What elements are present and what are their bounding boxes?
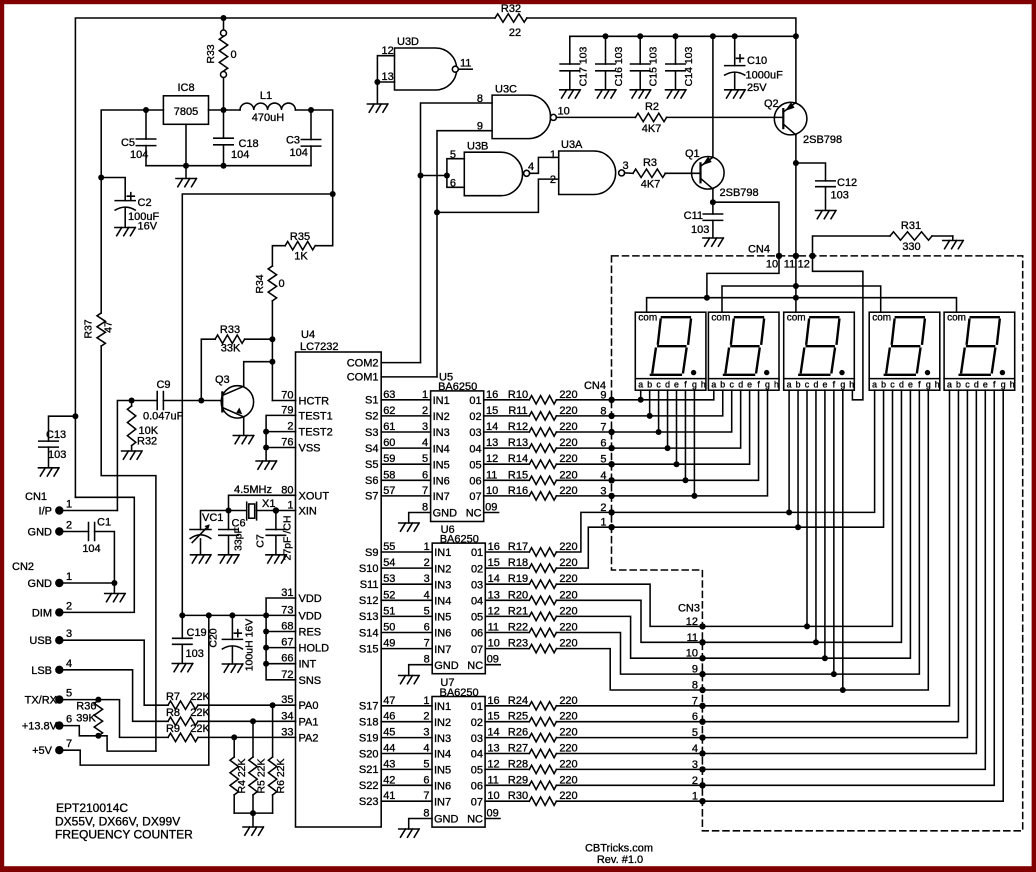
svg-text:S4: S4 [365, 443, 378, 455]
node R34 / R33 33K junction [269, 336, 275, 342]
svg-text:DIM: DIM [32, 607, 52, 619]
svg-text:a: a [872, 380, 877, 390]
svg-text:68: 68 [281, 621, 293, 633]
connector pin 4 LSB [55, 666, 63, 674]
wire segment CN3-2 to DS5 pin f [703, 390, 995, 785]
ground R31 [943, 241, 964, 249]
svg-text:h: h [849, 380, 854, 390]
svg-text:NC: NC [467, 660, 483, 672]
wire R29 to CN3 pin 2 [556, 784, 702, 786]
svg-text:02: 02 [469, 411, 481, 423]
svg-text:470uH: 470uH [252, 112, 284, 124]
svg-text:4: 4 [528, 161, 534, 173]
svg-text:g: g [926, 380, 931, 390]
svg-text:R35: R35 [290, 231, 310, 243]
svg-text:22K: 22K [190, 723, 210, 735]
transistor Q3 2SC-type NPN [221, 386, 253, 418]
U4 pin 2 TEST2 [266, 431, 295, 433]
wire crystal row to VC1 [201, 511, 229, 530]
IC U7 BA6250 [432, 697, 485, 828]
resistor R15 220 [529, 476, 556, 484]
svg-text:3: 3 [623, 160, 629, 172]
svg-text:11: 11 [487, 774, 498, 786]
svg-text:0.047uF: 0.047uF [143, 411, 184, 423]
svg-text:62: 62 [383, 405, 395, 417]
ground C2 [115, 228, 135, 236]
svg-text:R7: R7 [166, 691, 180, 703]
wire R28 to CN3 pin 3 [556, 768, 702, 770]
svg-text:1: 1 [424, 541, 430, 553]
wire DS1 pin b drop [649, 390, 651, 416]
svg-text:IN6: IN6 [434, 628, 451, 640]
svg-text:a: a [638, 380, 643, 390]
connector CN3 pin 12 [699, 623, 705, 629]
ground R32 [122, 451, 143, 459]
svg-text:I/P: I/P [39, 506, 52, 518]
connector CN3 pin 1 [699, 798, 705, 804]
svg-text:34: 34 [281, 710, 293, 722]
svg-text:8: 8 [422, 502, 428, 514]
svg-text:BA6250: BA6250 [438, 381, 477, 393]
transistor Q1 2SB798 PNP [692, 157, 725, 190]
svg-text:03: 03 [469, 427, 481, 439]
wire R13 to CN4 pin 6 [556, 447, 611, 449]
wire DS1 pin a drop [640, 390, 642, 400]
svg-text:R26: R26 [508, 727, 528, 739]
wire segment net c CN4-7 to DS1/DS2 [612, 390, 732, 432]
svg-text:220: 220 [559, 573, 577, 585]
svg-text:R27: R27 [508, 743, 528, 755]
svg-text:R14: R14 [508, 453, 528, 465]
svg-text:U3B: U3B [467, 141, 488, 153]
resistor R25 220 [529, 718, 556, 726]
svg-text:15: 15 [486, 405, 498, 417]
svg-text:EPT210014C: EPT210014C [56, 801, 128, 815]
node +5V branch to C19 rail [330, 191, 336, 197]
svg-text:3: 3 [422, 421, 428, 433]
svg-text:L1: L1 [260, 90, 272, 102]
svg-text:6: 6 [422, 469, 428, 481]
wire U3C pin 9 from COM1 riser [437, 131, 492, 377]
svg-text:COM1: COM1 [347, 372, 379, 384]
wire segment CN3-11 to DS3/DS4 pin d [703, 390, 902, 642]
svg-text:14: 14 [488, 573, 500, 585]
U4 pin 80 XOUT [229, 495, 296, 510]
svg-text:C9: C9 [156, 379, 170, 391]
svg-text:220: 220 [559, 557, 577, 569]
svg-text:6: 6 [423, 774, 429, 786]
svg-text:103: 103 [691, 224, 709, 236]
wire R15 to CN4 pin 4 [556, 479, 611, 481]
svg-text:g: g [765, 380, 770, 390]
resistor R33 33K [245, 338, 273, 340]
svg-text:70: 70 [281, 390, 293, 402]
connector CN3 pin 3 [699, 766, 705, 772]
capacitor C7 27pF [275, 511, 277, 530]
wire DS3 pin c drop [806, 390, 808, 626]
svg-text:USB: USB [29, 635, 52, 647]
node R5 top [250, 718, 256, 724]
connector CN4 pin 3 [608, 493, 614, 499]
resistor R11 220 [529, 412, 556, 420]
wire segment CN3-6 to DS5 pin b [703, 390, 959, 722]
wire U4 pin 53 to U6 IN3 [381, 583, 432, 585]
node com bus B at CN4 11 [793, 283, 799, 289]
svg-text:103: 103 [831, 190, 849, 202]
display DS4 7-segment [869, 312, 940, 390]
U4 pin 68 RES [266, 631, 295, 633]
svg-text:e: e [674, 380, 679, 390]
wire U3C output to R2 [556, 116, 635, 118]
svg-text:35: 35 [281, 694, 293, 706]
ground C13 [39, 468, 60, 476]
svg-text:04: 04 [471, 596, 483, 608]
node R33 top junction [221, 15, 227, 21]
resistor R37 47 [72, 413, 78, 419]
wire rail down to Q2 emitter [795, 36, 797, 102]
wire U3B input bracket [421, 175, 447, 177]
svg-text:LC7232: LC7232 [300, 341, 339, 353]
svg-text:6: 6 [66, 714, 72, 726]
svg-text:GND: GND [28, 527, 53, 539]
svg-text:05: 05 [469, 459, 481, 471]
svg-text:IN5: IN5 [434, 612, 451, 624]
svg-text:220: 220 [559, 469, 577, 481]
svg-text:10: 10 [488, 638, 500, 650]
connector pin 5 TX/RX [55, 695, 63, 703]
U4 pin 67 HOLD [266, 647, 295, 649]
svg-text:R8: R8 [166, 707, 180, 719]
svg-text:S5: S5 [365, 459, 378, 471]
svg-text:IN6: IN6 [434, 781, 451, 793]
svg-text:04: 04 [469, 443, 481, 455]
wire U4 pin 46 to U7 IN2 [381, 721, 432, 723]
svg-text:220: 220 [559, 405, 577, 417]
svg-text:IN1: IN1 [433, 395, 450, 407]
resistor R35 1K [315, 245, 332, 247]
svg-text:NC: NC [466, 508, 482, 520]
svg-text:09: 09 [485, 502, 497, 514]
svg-text:104: 104 [231, 149, 249, 161]
svg-text:47: 47 [383, 695, 395, 707]
wire segment CN3-7 to DS5 pin a [703, 390, 950, 706]
svg-text:C15 103: C15 103 [648, 46, 660, 86]
svg-text:03: 03 [471, 579, 483, 591]
resistor R21 220 [529, 612, 556, 620]
svg-text:220: 220 [559, 727, 577, 739]
svg-text:33K: 33K [221, 343, 241, 355]
svg-text:S11: S11 [360, 579, 379, 591]
svg-text:R18: R18 [508, 557, 528, 569]
wire U4 pin 52 to U6 IN4 [381, 599, 432, 601]
connector CN3 pin 6 [699, 719, 705, 725]
svg-text:g: g [840, 380, 845, 390]
svg-text:220: 220 [559, 695, 577, 707]
svg-text:VDD: VDD [299, 610, 322, 622]
svg-text:IN2: IN2 [434, 563, 451, 575]
svg-text:4.5MHz: 4.5MHz [234, 484, 272, 496]
svg-text:S1: S1 [365, 395, 378, 407]
resistor R22 220 [529, 628, 556, 636]
svg-text:S23: S23 [359, 796, 379, 808]
svg-text:SNS: SNS [299, 675, 322, 687]
svg-text:com: com [787, 313, 806, 324]
svg-text:13: 13 [488, 589, 500, 601]
svg-text:Q2: Q2 [764, 98, 779, 110]
inductor L1 470uH [240, 103, 295, 110]
resistor R31 330 [890, 232, 932, 240]
svg-text:PA1: PA1 [299, 716, 319, 728]
node R36 top [95, 697, 101, 703]
svg-text:b: b [720, 380, 725, 390]
svg-text:CN3: CN3 [678, 603, 700, 615]
wire U3A output to R3 [625, 172, 633, 174]
capacitor C9 0.047uF [157, 392, 163, 410]
svg-text:IC8: IC8 [177, 82, 194, 94]
wire USB to R7 [63, 640, 168, 705]
wire U3A pin 2 feed [437, 179, 559, 212]
wire com bus A to display1 and display5 com [647, 298, 957, 313]
display DS3 7-segment [784, 312, 855, 390]
svg-text:U4: U4 [301, 329, 315, 341]
wire R14 to CN4 pin 5 [556, 463, 611, 465]
svg-text:220: 220 [559, 774, 577, 786]
capacitor C13 103 [49, 416, 76, 441]
svg-text:39K: 39K [76, 713, 96, 725]
wire U4 pin 58 to U5 IN6 [381, 479, 430, 481]
wire segment CN3-10 to DS3/DS4 pin e [703, 390, 911, 658]
svg-text:h: h [774, 380, 779, 390]
svg-text:+13.8V: +13.8V [22, 721, 58, 733]
node C19 / rail [179, 612, 185, 618]
wire R17 to CN4 pin 2 [556, 512, 611, 552]
wire R25 to CN3 pin 6 [556, 721, 702, 723]
svg-text:R33: R33 [220, 324, 240, 336]
svg-text:com: com [947, 313, 966, 324]
ground U3D inputs [367, 104, 388, 112]
connector CN3 pin 7 [699, 703, 705, 709]
wire U4 pin 41 to U7 IN7 [381, 800, 432, 802]
svg-text:63: 63 [383, 389, 395, 401]
IC8 7805 regulator [163, 96, 208, 125]
node com bus A feed [704, 295, 710, 301]
svg-text:GND: GND [434, 660, 459, 672]
wire R16 to CN4 pin 3 [556, 495, 611, 497]
svg-text:LSB: LSB [31, 665, 52, 677]
wire U3D output pin 11 [458, 68, 472, 70]
svg-text:01: 01 [469, 395, 481, 407]
svg-text:GND: GND [28, 578, 53, 590]
resistor R34 0 ohm vertical [268, 266, 276, 301]
svg-text:R19: R19 [508, 573, 528, 585]
svg-text:X1: X1 [262, 498, 275, 510]
svg-text:IN5: IN5 [433, 459, 450, 471]
gate U3D output bubble [452, 66, 458, 72]
svg-text:2: 2 [423, 711, 429, 723]
resistor R14 220 [529, 460, 556, 468]
wire segment net g CN4-3 to DS1/DS2 [612, 390, 768, 496]
ground CN2 [105, 594, 126, 602]
U7 GND pin 8 [409, 819, 432, 830]
capacitor C3 104 [310, 110, 312, 140]
wire VDD bracket [266, 598, 295, 680]
svg-text:e: e [822, 380, 827, 390]
svg-text:44: 44 [383, 743, 395, 755]
svg-text:41: 41 [383, 790, 395, 802]
svg-text:0: 0 [279, 278, 285, 290]
wire TX/RX to R9 [63, 700, 168, 738]
wire R19 to CN3 pin 12 [556, 584, 702, 626]
ground U7 [399, 829, 420, 837]
svg-text:1: 1 [550, 149, 556, 161]
svg-text:60: 60 [383, 437, 395, 449]
connector pin 7 +5V [55, 746, 63, 754]
node XIN / C7 junction [273, 507, 279, 513]
svg-text:CN4: CN4 [748, 244, 770, 256]
resistor R5 22K [252, 721, 254, 757]
svg-text:2SB798: 2SB798 [803, 134, 842, 146]
wire U4 pin 44 to U7 IN4 [381, 753, 432, 755]
svg-text:59: 59 [383, 453, 395, 465]
svg-text:15: 15 [487, 711, 499, 723]
svg-text:103: 103 [186, 648, 204, 660]
U4 pin 73 VDD [266, 614, 295, 616]
display DS1 7-segment [635, 312, 706, 390]
svg-text:4: 4 [422, 437, 428, 449]
svg-text:R10: R10 [508, 389, 528, 401]
svg-text:R5 22K: R5 22K [255, 758, 267, 793]
svg-text:GND: GND [433, 508, 458, 520]
connector pin 1 GND [55, 579, 63, 587]
svg-text:104: 104 [290, 147, 308, 159]
U4 pin 79 TEST1 [266, 415, 295, 460]
svg-text:14: 14 [487, 727, 499, 739]
IC U4 LC7232 [296, 352, 382, 827]
svg-text:9: 9 [477, 121, 483, 133]
wire Q1 node to CN4 pin 10 [713, 202, 779, 256]
svg-text:IN5: IN5 [434, 765, 451, 777]
resistor R18 220 [529, 564, 556, 572]
wire segment net e CN4-5 to DS1/DS2 [612, 390, 750, 464]
svg-text:Q3: Q3 [215, 374, 230, 386]
node U3B input feed [418, 173, 424, 179]
node XOUT / C6 junction [226, 508, 232, 514]
wire R27 to CN3 pin 4 [556, 753, 702, 755]
ground C12 [816, 211, 837, 219]
svg-text:S13: S13 [359, 611, 379, 623]
wire R23 to CN3 pin 8 [556, 649, 702, 690]
svg-text:U3A: U3A [561, 139, 583, 151]
svg-text:BA6250: BA6250 [440, 533, 479, 545]
svg-text:IN3: IN3 [433, 427, 450, 439]
svg-text:C5: C5 [121, 137, 135, 149]
connector CN4 pin 2 [608, 509, 614, 515]
svg-text:51: 51 [383, 605, 395, 617]
svg-text:2: 2 [66, 600, 72, 612]
svg-text:7805: 7805 [174, 106, 198, 118]
svg-text:IN1: IN1 [434, 547, 451, 559]
wire I/P pin to riser [63, 510, 117, 512]
wire 7805 input from C5/C2 node [101, 110, 163, 178]
wire U4 pin 47 to U7 IN1 [381, 705, 432, 707]
svg-text:Rev. #1.0: Rev. #1.0 [597, 854, 643, 866]
svg-text:3: 3 [424, 573, 430, 585]
wire segment CN3-1 to DS5 pin g [703, 390, 1004, 801]
U5 GND pin 8 [409, 513, 431, 524]
svg-text:c: c [656, 380, 661, 390]
svg-text:13: 13 [382, 71, 394, 83]
capacitor C2 100uF 16V electrolytic [98, 175, 104, 181]
resistor R32 10K to ground [131, 401, 133, 407]
svg-text:IN4: IN4 [433, 443, 450, 455]
capacitor C1 104 [63, 531, 89, 533]
svg-text:IN3: IN3 [434, 579, 451, 591]
wire R10 to CN4 pin 9 [556, 399, 611, 401]
connector CN4 pin 8 [608, 413, 614, 419]
svg-text:IN1: IN1 [434, 701, 451, 713]
svg-text:76: 76 [281, 437, 293, 449]
node C20 [229, 612, 235, 618]
svg-text:S10: S10 [359, 563, 379, 575]
gate U3C output bubble [550, 114, 556, 120]
svg-text:103: 103 [48, 449, 66, 461]
svg-text:S21: S21 [359, 764, 379, 776]
svg-text:C1: C1 [97, 517, 111, 529]
wire U3B output to U3A pin 1 [530, 157, 559, 173]
wire Q3 collector [244, 362, 273, 387]
svg-text:IN2: IN2 [434, 717, 451, 729]
ground C16 [596, 90, 617, 98]
resistor R33 (0 ohm) vertical with terminals [223, 18, 225, 30]
svg-text:4: 4 [423, 743, 429, 755]
capacitor C20 100uF 16V electrolytic [231, 615, 233, 639]
svg-text:S19: S19 [359, 732, 379, 744]
svg-text:5: 5 [66, 688, 72, 700]
svg-text:57: 57 [383, 485, 395, 497]
node R6 top [270, 702, 276, 708]
resistor R29 220 [529, 781, 556, 789]
node C3 top [308, 107, 314, 113]
svg-text:16: 16 [486, 389, 498, 401]
svg-text:220: 220 [559, 453, 577, 465]
svg-text:45: 45 [383, 727, 395, 739]
connector pin 3 USB [55, 636, 63, 644]
wire U4 pin 50 to U6 IN6 [381, 632, 432, 634]
resistor R36 39K [94, 701, 102, 736]
svg-text:1: 1 [66, 571, 72, 583]
wire segment net f CN4-4 to DS1/DS2 [612, 390, 759, 480]
trimmer capacitor VC1 [190, 530, 211, 539]
node rail to Q2 [793, 33, 799, 39]
svg-text:C12: C12 [837, 177, 857, 189]
svg-text:R34: R34 [254, 274, 266, 293]
connector pin 2 GND [55, 527, 63, 535]
svg-text:58: 58 [383, 469, 395, 481]
node C5 top [143, 107, 149, 113]
capacitor C14 103 [675, 36, 677, 64]
wire VDD feed rail [182, 614, 266, 616]
svg-text:R28: R28 [508, 758, 528, 770]
svg-text:06: 06 [469, 476, 481, 488]
svg-text:66: 66 [281, 653, 293, 665]
svg-text:1K: 1K [294, 251, 308, 263]
svg-text:VSS: VSS [299, 443, 321, 455]
resistor R28 220 [529, 765, 556, 773]
svg-text:com: com [872, 313, 891, 324]
ground C11 [703, 238, 724, 246]
svg-text:11: 11 [460, 58, 471, 70]
svg-text:R9: R9 [166, 723, 180, 735]
